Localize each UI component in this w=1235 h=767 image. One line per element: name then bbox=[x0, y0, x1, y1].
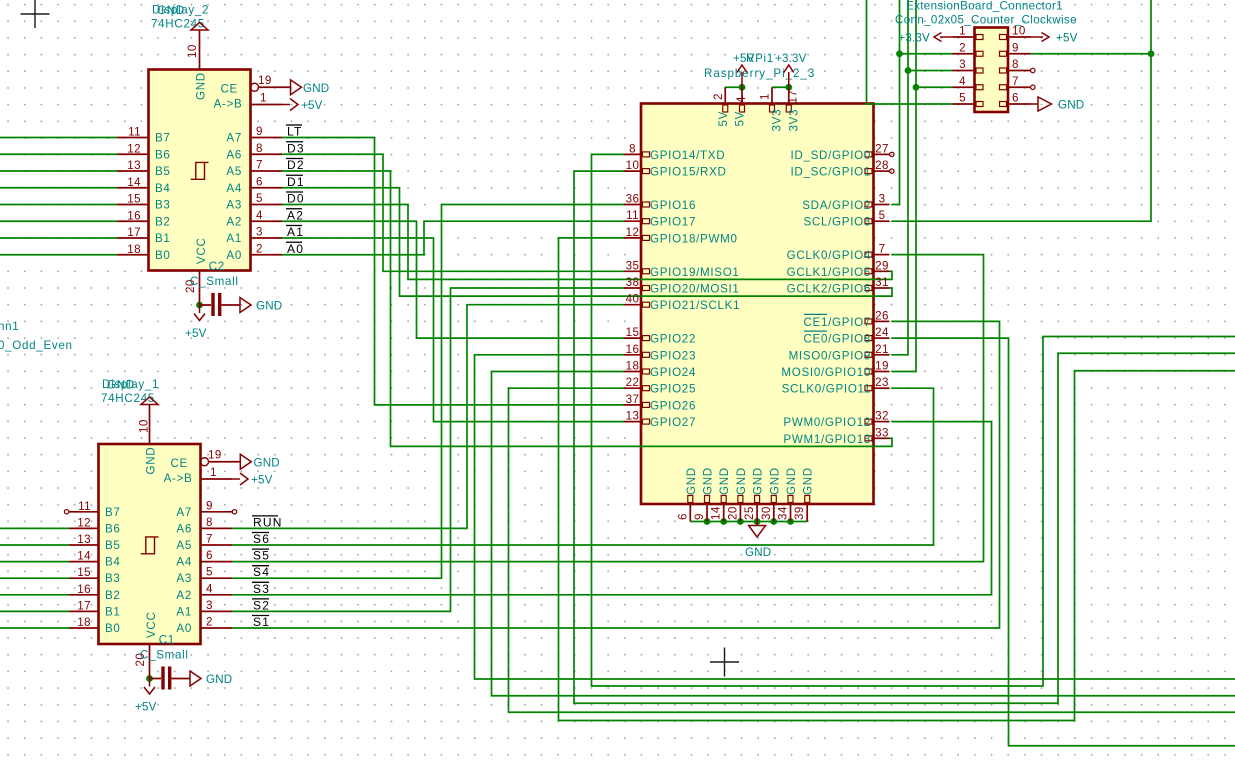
svg-text:4: 4 bbox=[256, 209, 263, 222]
svg-text:CE0/GPIO8: CE0/GPIO8 bbox=[803, 333, 871, 346]
svg-text:GCLK0/GPIO4: GCLK0/GPIO4 bbox=[787, 249, 871, 262]
svg-text:1: 1 bbox=[260, 92, 267, 105]
wire to U2 B5 bbox=[0, 170, 117, 172]
svg-text:+5V: +5V bbox=[251, 474, 273, 487]
wire GCLK0/GPIO4 to S5 bbox=[232, 255, 984, 562]
svg-text:3: 3 bbox=[206, 599, 213, 612]
wire MISO0/GPIO9 vertical bbox=[892, 0, 909, 355]
svg-text:S2: S2 bbox=[253, 598, 270, 612]
power GND at C2 bbox=[240, 298, 251, 313]
U1 pin 18 B0 bbox=[69, 627, 99, 629]
svg-text:CE1/GPIO7: CE1/GPIO7 bbox=[803, 316, 871, 329]
svg-text:14: 14 bbox=[77, 550, 91, 563]
capacitor C2 bbox=[200, 304, 241, 306]
U2 pin 14 B4 bbox=[117, 187, 149, 189]
U1 pin 3 A1 bbox=[201, 610, 233, 612]
svg-text:5V: 5V bbox=[717, 111, 730, 127]
svg-text:A0: A0 bbox=[287, 242, 304, 256]
svg-text:GND: GND bbox=[254, 456, 280, 469]
svg-text:7: 7 bbox=[206, 533, 213, 546]
wire connector pin9 bbox=[1031, 53, 1152, 55]
wire GPIO15/RXD loop right bbox=[574, 171, 1235, 703]
wire to U2 B4 bbox=[0, 187, 117, 189]
J1 pin 5 (left) bbox=[953, 103, 975, 105]
svg-text:D1: D1 bbox=[287, 175, 305, 189]
U1 pin 14 B4 bbox=[69, 561, 99, 563]
J2 pin 13 GPIO27 bbox=[624, 421, 642, 423]
svg-text:A5: A5 bbox=[176, 539, 192, 552]
J2 pin 7 GCLK0/GPIO4 bbox=[874, 254, 890, 256]
J2 pin 27 ID_SD/GPIO0 bbox=[874, 153, 890, 155]
svg-text:2: 2 bbox=[206, 616, 213, 629]
J2 pin 19 MOSI0/GPIO10 bbox=[874, 371, 890, 373]
svg-text:A3: A3 bbox=[226, 199, 242, 212]
J1 pin 4 (left) bbox=[953, 86, 975, 88]
J2 pin 36 GPIO16 bbox=[624, 204, 642, 206]
J2 pin 3 SDA/GPIO2 bbox=[874, 204, 890, 206]
svg-text:S6: S6 bbox=[253, 532, 270, 546]
J2 pin 1 3V3 (top) bbox=[771, 87, 773, 103]
power GND at U2 CE bbox=[291, 80, 302, 95]
svg-text:A7: A7 bbox=[176, 506, 192, 519]
capacitor C1 bbox=[150, 678, 191, 680]
svg-text:A4: A4 bbox=[226, 182, 242, 195]
svg-text:8: 8 bbox=[1012, 58, 1019, 71]
U1 pin 17 B1 bbox=[69, 610, 99, 612]
svg-text:C_Small: C_Small bbox=[140, 649, 189, 662]
svg-text:B1: B1 bbox=[155, 232, 171, 245]
svg-text:25: 25 bbox=[743, 506, 756, 520]
svg-text:GPIO25: GPIO25 bbox=[650, 383, 696, 396]
J2 pin 15 GPIO22 bbox=[624, 337, 642, 339]
svg-text:24: 24 bbox=[875, 326, 889, 339]
svg-text:B5: B5 bbox=[155, 165, 171, 178]
svg-text:29: 29 bbox=[875, 259, 889, 272]
wire A0 to GPIO17 bbox=[282, 221, 624, 255]
svg-text:4: 4 bbox=[206, 582, 213, 595]
svg-text:GND: GND bbox=[752, 467, 765, 495]
IC U2 74HC245 Display_2 body bbox=[149, 70, 251, 271]
U1 pin 8 A6 bbox=[201, 527, 233, 529]
U2 pin 20 VCC bbox=[199, 271, 201, 306]
svg-text:A2: A2 bbox=[287, 208, 304, 222]
svg-text:B3: B3 bbox=[155, 199, 171, 212]
svg-text:GND: GND bbox=[745, 546, 771, 559]
junction at C1 bbox=[146, 675, 153, 682]
svg-text:16: 16 bbox=[626, 343, 640, 356]
svg-text:GND: GND bbox=[718, 467, 731, 495]
svg-text:A5: A5 bbox=[226, 165, 242, 178]
svg-text:PWM0/GPIO12: PWM0/GPIO12 bbox=[783, 416, 871, 429]
svg-text:3V3: 3V3 bbox=[771, 109, 784, 132]
svg-text:B2: B2 bbox=[105, 589, 121, 602]
U2 pin 4 A2 bbox=[251, 220, 283, 222]
svg-text:S3: S3 bbox=[253, 582, 270, 596]
junction +3.3V RPi bbox=[785, 84, 792, 91]
wire D0 to GCLK1/GPIO5 bbox=[282, 205, 892, 280]
svg-text:21: 21 bbox=[875, 343, 889, 356]
U2 pin 16 B2 bbox=[117, 220, 149, 222]
U1 pin 13 B5 bbox=[69, 544, 99, 546]
junction GND bus bbox=[770, 518, 777, 525]
svg-text:7: 7 bbox=[256, 159, 263, 172]
svg-text:18: 18 bbox=[127, 243, 141, 256]
svg-text:+5V: +5V bbox=[301, 99, 323, 112]
U2 pin 18 B0 bbox=[117, 254, 149, 256]
svg-text:28: 28 bbox=[875, 159, 889, 172]
svg-text:GPIO26: GPIO26 bbox=[650, 399, 696, 412]
svg-text:GPIO23: GPIO23 bbox=[650, 349, 696, 362]
svg-text:5V: 5V bbox=[734, 111, 747, 127]
power +5V at U2 pin1 bbox=[282, 99, 298, 111]
svg-text:4: 4 bbox=[959, 75, 966, 88]
svg-text:SDA/GPIO2: SDA/GPIO2 bbox=[802, 199, 871, 212]
svg-text:GPIO15/RXD: GPIO15/RXD bbox=[650, 166, 727, 179]
svg-text:16: 16 bbox=[127, 209, 141, 222]
svg-text:GND: GND bbox=[303, 82, 329, 95]
svg-text:S1: S1 bbox=[253, 615, 270, 629]
wire CE1/GPIO7 to S1 bbox=[232, 321, 1000, 628]
wire to U1 B1 bbox=[0, 610, 69, 612]
J1 pin 8 (right) bbox=[1008, 70, 1031, 72]
svg-text:GND: GND bbox=[157, 4, 185, 17]
J2 pin 21 MISO0/GPIO9 bbox=[874, 354, 890, 356]
svg-text:11: 11 bbox=[626, 209, 639, 222]
wire to U1 B2 bbox=[0, 594, 69, 596]
unconnected J2 pin 27 bbox=[890, 152, 894, 156]
svg-text:7: 7 bbox=[1012, 75, 1019, 88]
svg-text:Raspberry_Pi_2_3: Raspberry_Pi_2_3 bbox=[704, 67, 815, 80]
U1 hysteresis glyph bbox=[141, 537, 159, 554]
J2 pin 34 GND (bottom) bbox=[790, 504, 792, 522]
svg-text:3: 3 bbox=[256, 226, 263, 239]
wire to U2 B0 bbox=[0, 254, 117, 256]
junction +5V RPi bbox=[739, 84, 746, 91]
svg-text:39: 39 bbox=[793, 506, 806, 520]
wire PWM0/GPIO12 to S3 bbox=[232, 422, 992, 595]
wire connector pin2 bbox=[900, 53, 953, 55]
wire SCLK0/GPIO11 to S6 bbox=[232, 388, 934, 545]
svg-text:GPIO22: GPIO22 bbox=[650, 333, 696, 346]
J2 pin 22 GPIO25 bbox=[624, 387, 642, 389]
svg-text:8: 8 bbox=[256, 142, 263, 155]
wire GPIO24 to right edge bbox=[492, 372, 1235, 696]
connector J2 Raspberry_Pi_2_3 body bbox=[641, 104, 874, 505]
junction at C2 bbox=[196, 302, 203, 309]
svg-text:3: 3 bbox=[879, 193, 886, 206]
J1 pin 6 (right) bbox=[1008, 103, 1031, 105]
svg-text:12: 12 bbox=[626, 226, 640, 239]
svg-text:5: 5 bbox=[256, 192, 263, 205]
svg-text:GND: GND bbox=[195, 72, 208, 100]
svg-text:1: 1 bbox=[959, 25, 966, 38]
wire connector pin3 bbox=[908, 70, 953, 72]
U1 pin 2 A0 bbox=[201, 627, 233, 629]
svg-text:14: 14 bbox=[127, 176, 141, 189]
svg-text:A2: A2 bbox=[176, 589, 192, 602]
svg-text:17: 17 bbox=[77, 599, 91, 612]
svg-text:+5V: +5V bbox=[733, 52, 755, 65]
U1 pin 4 A2 bbox=[201, 594, 233, 596]
unconnected U1 pin 11 B7 bbox=[64, 510, 68, 514]
svg-text:GND: GND bbox=[1058, 99, 1084, 112]
J2 pin 40 GPIO21/SCLK1 bbox=[624, 304, 642, 306]
J2 pin 6 GND (bottom) bbox=[689, 504, 691, 522]
svg-text:12: 12 bbox=[77, 516, 91, 529]
svg-text:6: 6 bbox=[1012, 92, 1019, 105]
J2 pin 32 PWM0/GPIO12 bbox=[874, 421, 890, 423]
wire connector pin4 bbox=[916, 86, 953, 88]
wire 3V3 pins join bbox=[772, 86, 789, 88]
svg-text:C_Small: C_Small bbox=[190, 275, 239, 288]
svg-text:A7: A7 bbox=[226, 132, 242, 145]
svg-text:GPIO17: GPIO17 bbox=[650, 216, 696, 229]
wire to U1 B0 bbox=[0, 627, 69, 629]
svg-text:5: 5 bbox=[879, 209, 886, 222]
J1 pin 3 (left) bbox=[953, 70, 975, 72]
wire to U1 B4 bbox=[0, 561, 69, 563]
svg-text:1: 1 bbox=[759, 93, 772, 100]
svg-text:GPIO20/MOSI1: GPIO20/MOSI1 bbox=[650, 283, 740, 296]
J2 pin 38 GPIO20/MOSI1 bbox=[624, 287, 642, 289]
svg-text:A4: A4 bbox=[176, 556, 192, 569]
wire connector pin5 bbox=[867, 0, 953, 104]
svg-text:B0: B0 bbox=[105, 622, 121, 635]
svg-text:C2: C2 bbox=[209, 260, 225, 273]
svg-text:20: 20 bbox=[726, 506, 739, 520]
power +5V at J1 pin10 (arrow right) bbox=[1031, 33, 1050, 42]
svg-text:A0: A0 bbox=[176, 622, 192, 635]
svg-text:18: 18 bbox=[77, 616, 91, 629]
svg-text:34: 34 bbox=[777, 506, 790, 520]
J2 pin 26 CE1/GPIO7 bbox=[874, 320, 890, 322]
svg-text:30: 30 bbox=[760, 506, 773, 520]
J1 pin 2 (left) bbox=[953, 53, 975, 55]
crosshair cursor top left bbox=[21, 0, 50, 28]
unconnected J2 pin 28 bbox=[890, 169, 894, 173]
svg-text:37: 37 bbox=[626, 393, 640, 406]
U2 pin 19 CE with inverting bubble bbox=[251, 83, 259, 91]
svg-text:36: 36 bbox=[626, 193, 640, 206]
J2 pin 16 GPIO23 bbox=[624, 354, 642, 356]
U2 pin 7 A5 bbox=[251, 170, 283, 172]
svg-text:GND: GND bbox=[702, 467, 715, 495]
svg-text:11: 11 bbox=[128, 126, 141, 139]
svg-text:A6: A6 bbox=[226, 148, 242, 161]
svg-text:8: 8 bbox=[629, 142, 636, 155]
J2 pin 35 GPIO19/MISO1 bbox=[624, 270, 642, 272]
wire GPIO21 to RUN bbox=[232, 305, 624, 529]
J1 pin 10 (right) bbox=[1008, 36, 1031, 38]
J2 pin 24 CE0/GPIO8 bbox=[874, 337, 890, 339]
wire to U1 B5 bbox=[0, 544, 69, 546]
svg-text:19: 19 bbox=[258, 74, 272, 87]
svg-text:B5: B5 bbox=[105, 539, 121, 552]
wire SCL/GPIO3 vertical bbox=[892, 0, 1152, 221]
svg-text:0_Odd_Even: 0_Odd_Even bbox=[0, 339, 73, 352]
U1 pin 15 B3 bbox=[69, 577, 99, 579]
power +5V symbol above RPi bbox=[737, 65, 747, 87]
wire GPIO18 loop right bbox=[559, 238, 1235, 721]
svg-text:Conn_02x05_Counter_Clockwise: Conn_02x05_Counter_Clockwise bbox=[895, 14, 1077, 27]
J2 pin 4 5V (top) bbox=[741, 87, 743, 103]
svg-text:14: 14 bbox=[710, 506, 723, 520]
svg-text:26: 26 bbox=[875, 309, 889, 322]
U2 pin 11 B7 bbox=[117, 137, 149, 139]
junction connector pin9 / SCL net bbox=[1148, 50, 1155, 57]
wire GPIO14/TXD loop right bbox=[592, 154, 1235, 686]
U1 pin 16 B2 bbox=[69, 594, 99, 596]
U1 pin 20 VCC bbox=[149, 644, 151, 679]
svg-text:S5: S5 bbox=[253, 549, 270, 563]
junction GND bus bbox=[737, 518, 744, 525]
svg-text:6: 6 bbox=[206, 549, 213, 562]
svg-text:13: 13 bbox=[77, 533, 91, 546]
power +5V below U2 (arrow down) bbox=[194, 305, 205, 321]
svg-text:A1: A1 bbox=[176, 605, 192, 618]
svg-text:GND: GND bbox=[735, 467, 748, 495]
svg-text:+5V: +5V bbox=[1056, 32, 1078, 45]
svg-text:9: 9 bbox=[693, 513, 706, 520]
svg-text:ID_SD/GPIO0: ID_SD/GPIO0 bbox=[790, 149, 871, 162]
J2 pin 5 SCL/GPIO3 bbox=[874, 220, 890, 222]
svg-text:17: 17 bbox=[787, 90, 800, 104]
svg-text:+5V: +5V bbox=[185, 327, 207, 340]
svg-text:35: 35 bbox=[626, 259, 640, 272]
svg-text:+5V: +5V bbox=[135, 701, 157, 714]
U1 pin 19 CE with inverting bubble bbox=[201, 458, 209, 466]
svg-text:31: 31 bbox=[875, 276, 889, 289]
power GND symbol below RPi bbox=[749, 522, 766, 538]
J1 pin 9 (right) bbox=[1008, 53, 1031, 55]
svg-text:nn1: nn1 bbox=[0, 320, 19, 333]
wire SDA/GPIO2 vertical bbox=[892, 0, 900, 205]
svg-text:12: 12 bbox=[127, 142, 141, 155]
J2 pin 37 GPIO26 bbox=[624, 404, 642, 406]
U2 pin 13 B5 bbox=[117, 170, 149, 172]
svg-text:SCL/GPIO3: SCL/GPIO3 bbox=[803, 216, 871, 229]
U2 pin 15 B3 bbox=[117, 204, 149, 206]
J2 pin 20 GND (bottom) bbox=[739, 504, 741, 522]
J2 pin 14 GND (bottom) bbox=[723, 504, 725, 522]
power +3.3V symbol above RPi bbox=[784, 65, 794, 87]
svg-text:7: 7 bbox=[879, 243, 886, 256]
svg-text:A6: A6 bbox=[176, 522, 192, 535]
svg-text:+3.3V: +3.3V bbox=[898, 32, 930, 45]
power GND at J1 pin6 bbox=[1031, 97, 1052, 111]
wire GPIO25 to right edge bbox=[509, 388, 1235, 712]
svg-text:13: 13 bbox=[626, 410, 640, 423]
svg-text:ExtensionBoard_Connector1: ExtensionBoard_Connector1 bbox=[906, 0, 1063, 13]
svg-text:2: 2 bbox=[712, 93, 725, 100]
svg-text:D3: D3 bbox=[287, 141, 305, 155]
J2 pin 8 GPIO14/TXD bbox=[624, 153, 642, 155]
power +5V below U1 (arrow down) bbox=[144, 679, 155, 695]
junction GND bus bbox=[720, 518, 727, 525]
svg-text:MOSI0/GPIO10: MOSI0/GPIO10 bbox=[781, 366, 871, 379]
svg-text:GPIO27: GPIO27 bbox=[650, 416, 696, 429]
J1 pin 1 (left) bbox=[953, 36, 975, 38]
J2 pin 18 GPIO24 bbox=[624, 371, 642, 373]
svg-text:VCC: VCC bbox=[195, 237, 208, 264]
J2 pin 9 GND (bottom) bbox=[706, 504, 708, 522]
J2 pin 17 3V3 (top) bbox=[788, 87, 790, 103]
svg-text:B4: B4 bbox=[105, 556, 121, 569]
U2 pin 6 A4 bbox=[251, 187, 283, 189]
svg-text:38: 38 bbox=[626, 276, 640, 289]
svg-text:10: 10 bbox=[1012, 25, 1026, 38]
svg-text:GND: GND bbox=[785, 467, 798, 495]
U2 pin 9 A7 bbox=[251, 137, 283, 139]
wire D1 to GCLK2/GPIO6 bbox=[282, 188, 892, 296]
J2 pin 29 GCLK1/GPIO5 bbox=[874, 270, 890, 272]
junction GND bus bbox=[787, 518, 794, 525]
svg-text:16: 16 bbox=[77, 583, 91, 596]
power +5V at U1 pin1 bbox=[232, 473, 248, 485]
svg-text:GND: GND bbox=[768, 467, 781, 495]
J2 pin 12 GPIO18/PWM0 bbox=[624, 237, 642, 239]
wire D3 to GPIO19 bbox=[282, 154, 624, 271]
U2 pin 3 A1 bbox=[251, 237, 283, 239]
svg-text:D2: D2 bbox=[287, 158, 305, 172]
svg-text:GPIO18/PWM0: GPIO18/PWM0 bbox=[650, 232, 738, 245]
svg-text:B7: B7 bbox=[155, 132, 171, 145]
svg-text:A3: A3 bbox=[176, 572, 192, 585]
U2 pin 12 B6 bbox=[117, 153, 149, 155]
power +3.3V at J1 pin1 (arrow left) bbox=[934, 33, 953, 42]
svg-text:GPIO16: GPIO16 bbox=[650, 199, 696, 212]
svg-text:GCLK2/GPIO6: GCLK2/GPIO6 bbox=[787, 283, 871, 296]
wire to U2 B1 bbox=[0, 237, 117, 239]
svg-text:9: 9 bbox=[1012, 41, 1019, 54]
svg-text:19: 19 bbox=[875, 360, 889, 373]
svg-text:B0: B0 bbox=[155, 249, 171, 262]
svg-text:SCLK0/GPIO11: SCLK0/GPIO11 bbox=[782, 383, 871, 396]
svg-text:ID_SC/GPIO1: ID_SC/GPIO1 bbox=[790, 166, 871, 179]
U2 pin 8 A6 bbox=[251, 153, 283, 155]
wire CE0/GPIO8 to bottom right bbox=[892, 338, 1235, 746]
connector J1 ExtensionBoard_Connector1 body bbox=[975, 28, 1009, 113]
svg-text:CE: CE bbox=[220, 83, 238, 96]
svg-text:RUN: RUN bbox=[253, 515, 283, 529]
power GND at U1 CE bbox=[240, 454, 251, 469]
svg-text:A2: A2 bbox=[226, 215, 242, 228]
svg-text:VCC: VCC bbox=[145, 611, 158, 638]
U1 pin 1 A->B bbox=[201, 478, 233, 480]
svg-text:18: 18 bbox=[626, 360, 640, 373]
svg-text:15: 15 bbox=[626, 326, 640, 339]
ground symbol above U1 pin 10 bbox=[141, 397, 158, 405]
svg-text:A1: A1 bbox=[226, 232, 242, 245]
svg-text:10: 10 bbox=[626, 159, 640, 172]
wire to U1 B3 bbox=[0, 577, 69, 579]
svg-text:A1: A1 bbox=[287, 225, 304, 239]
IC U1 74HC245 Display_1 body bbox=[99, 444, 201, 644]
U1 pin 10 GND bbox=[149, 405, 151, 445]
svg-text:1: 1 bbox=[210, 466, 217, 479]
wire GND bus bbox=[690, 521, 807, 523]
wire to U2 B2 bbox=[0, 220, 117, 222]
svg-text:GND: GND bbox=[685, 467, 698, 495]
svg-text:B4: B4 bbox=[155, 182, 171, 195]
wire to U2 B6 bbox=[0, 153, 117, 155]
svg-text:17: 17 bbox=[127, 226, 141, 239]
U2 pin 1 A->B bbox=[251, 104, 283, 106]
U2 pin 2 A0 bbox=[251, 254, 283, 256]
svg-text:S4: S4 bbox=[253, 565, 270, 579]
junction connector pin2 / SDA net bbox=[896, 50, 903, 57]
U1 pin 11 B7 bbox=[69, 511, 99, 513]
